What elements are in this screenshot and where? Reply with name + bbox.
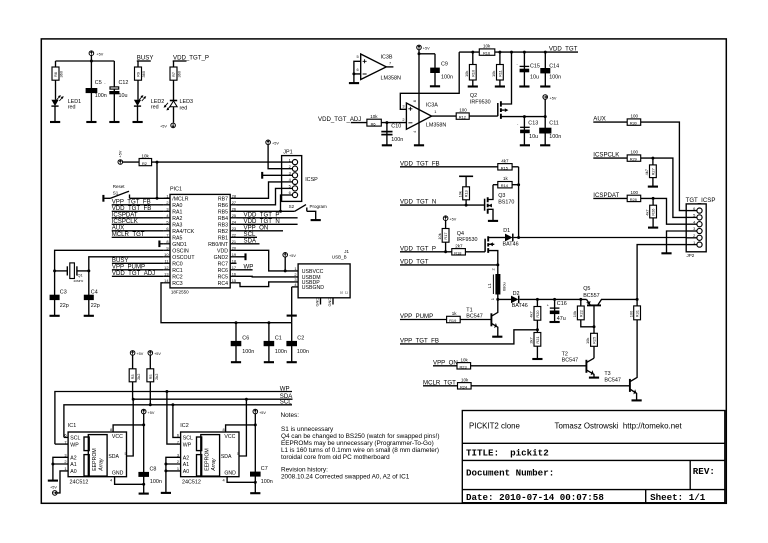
svg-text:100n: 100n [297, 349, 309, 355]
wire USBGND to ground [292, 286, 298, 288]
svg-text:REV:: REV: [693, 466, 715, 477]
wire [641, 122, 687, 211]
svg-text:BC557: BC557 [583, 293, 599, 299]
junction [171, 403, 174, 406]
svg-text:+5V: +5V [550, 96, 557, 100]
svg-text:A2: A2 [183, 456, 189, 462]
svg-text:360: 360 [59, 70, 64, 77]
ground [519, 85, 529, 87]
svg-text:RC0: RC0 [172, 261, 182, 267]
svg-text:R3: R3 [130, 374, 135, 379]
switch S1 Reset [104, 184, 170, 198]
resistor R17 10k [437, 221, 449, 252]
resistor R21 2k7 [529, 333, 541, 359]
svg-text:+5V: +5V [136, 352, 143, 356]
node SDA at RB0 [237, 238, 260, 245]
wire OSCIN [55, 250, 164, 271]
svg-text:EEPROM: EEPROM [92, 448, 98, 470]
resistor R9 [135, 61, 147, 100]
svg-text:GND2: GND2 [214, 255, 229, 261]
wire +5V to op-amp supply [418, 50, 420, 145]
junction [523, 51, 526, 54]
wire +5V rail top-left [56, 60, 115, 62]
svg-text:RC6: RC6 [218, 268, 228, 274]
ground [520, 144, 530, 146]
svg-text:Notes:: Notes: [281, 412, 300, 419]
node VPP_TGT_FB mid [400, 330, 537, 345]
svg-text:2: 2 [402, 117, 404, 122]
svg-text:C10: C10 [391, 124, 401, 130]
chip PIC1 18F2550 [164, 187, 237, 295]
svg-text:100: 100 [631, 190, 639, 195]
ground (rotated) at S1 [102, 195, 104, 202]
resistor R30 100 [627, 114, 641, 126]
svg-text:1k: 1k [452, 311, 458, 316]
svg-text:10: 10 [340, 291, 344, 295]
svg-text:27: 27 [232, 200, 236, 205]
svg-text:D2: D2 [513, 291, 520, 297]
svg-text:+5V: +5V [154, 352, 161, 356]
resistor R24 10k [458, 377, 630, 389]
svg-text:IRF9530: IRF9530 [457, 237, 478, 243]
svg-text:10k: 10k [572, 311, 577, 317]
ground [86, 121, 96, 123]
svg-text:6: 6 [166, 226, 168, 231]
capacitor C13 10u [517, 117, 538, 145]
svg-text:10k: 10k [464, 71, 469, 77]
svg-text:BAT46: BAT46 [503, 241, 519, 247]
power +5V above R5 [148, 351, 161, 357]
resistor R20 4k7 [529, 299, 541, 332]
diode D1 BAT46 [493, 228, 519, 248]
node ICSPCLK [112, 218, 164, 225]
svg-text:S1: S1 [113, 190, 119, 195]
ground [109, 121, 119, 123]
ground [468, 85, 478, 87]
svg-text:toroidal core from old PC moth: toroidal core from old PC motherboard [281, 454, 390, 461]
ground [589, 377, 599, 379]
inductor L1 [487, 265, 507, 300]
svg-text:2: 2 [491, 268, 496, 270]
wire [143, 414, 145, 494]
svg-text:A1: A1 [70, 462, 76, 468]
capacitor C12 [104, 61, 128, 122]
junction [156, 161, 159, 164]
wire [156, 162, 158, 198]
svg-text:RC5: RC5 [218, 274, 228, 280]
node VPP_TGT_FB [112, 199, 164, 206]
wire IC1 GND [115, 477, 144, 485]
wire VDD_TGT line to JP2 pin2 [514, 237, 687, 239]
capacitor C7 [250, 466, 273, 485]
junction [593, 325, 596, 328]
svg-text:R31: R31 [635, 310, 640, 317]
wire RB7 to JP1 pin4 [237, 182, 282, 198]
ground [50, 121, 60, 123]
svg-text:2k2: 2k2 [154, 374, 159, 380]
svg-text:C2: C2 [297, 335, 304, 341]
resistor R15 4k7 [498, 158, 519, 170]
svg-text:+5V: +5V [96, 53, 103, 57]
svg-text:20MHz: 20MHz [74, 279, 84, 283]
svg-text:GND1: GND1 [172, 242, 187, 248]
svg-text:R2: R2 [142, 161, 147, 166]
resistor R18 2k7 [452, 243, 485, 255]
svg-text:R27: R27 [651, 168, 656, 175]
node BUSY [137, 54, 154, 61]
junction [53, 269, 56, 272]
svg-text:red: red [68, 105, 76, 111]
junction [651, 157, 654, 160]
resistor R10 10k [464, 52, 476, 86]
svg-text:R6: R6 [371, 121, 376, 126]
capacitor C14 100n [540, 52, 561, 86]
svg-text:BC547: BC547 [466, 313, 482, 319]
junction [149, 403, 152, 406]
switch S2 Program [289, 204, 327, 220]
junction [245, 398, 248, 401]
svg-text:R7: R7 [171, 72, 176, 77]
wire IC2 GND [227, 477, 255, 483]
svg-text:BC547: BC547 [604, 377, 620, 383]
svg-text:Q3: Q3 [498, 193, 505, 199]
svg-text:Program: Program [310, 204, 328, 209]
wire RB6 to JP1 pin5 [237, 188, 282, 204]
svg-text:24C512: 24C512 [70, 480, 89, 486]
svg-text:10k: 10k [457, 191, 462, 197]
junction [352, 72, 355, 75]
wire [518, 167, 520, 238]
svg-text:10k: 10k [370, 114, 378, 119]
svg-text:RB0/INT: RB0/INT [208, 242, 229, 248]
svg-text:C8: C8 [150, 467, 157, 473]
svg-text:100n: 100n [242, 349, 254, 355]
svg-text:+5V: +5V [272, 142, 279, 146]
svg-text:1: 1 [294, 266, 296, 271]
wire [291, 287, 293, 323]
wire MCLR to JP1 pin1 [152, 161, 282, 163]
junction [636, 298, 639, 301]
junction [652, 197, 655, 200]
svg-text:13: 13 [164, 271, 168, 276]
ground [349, 82, 359, 84]
svg-text:+5V: +5V [289, 254, 296, 258]
svg-text:IRF9530: IRF9530 [470, 100, 491, 106]
junction [267, 321, 270, 324]
svg-text:LM358N: LM358N [426, 122, 446, 128]
svg-text:C6: C6 [242, 335, 249, 341]
capacitor C6 [231, 323, 255, 362]
svg-text:R13: R13 [464, 190, 469, 197]
svg-text:21: 21 [232, 239, 236, 244]
svg-text:+5V: +5V [50, 485, 57, 489]
svg-text:10u: 10u [530, 75, 539, 81]
svg-text:8: 8 [166, 239, 168, 244]
svg-text:IC2: IC2 [180, 423, 188, 429]
svg-text:Q4 can be changed to BS250 (wa: Q4 can be changed to BS250 (watch for sw… [281, 433, 439, 440]
svg-text:C14: C14 [549, 63, 559, 69]
resistor R26 4k7 [644, 198, 656, 227]
junction [544, 115, 547, 118]
svg-text:R29: R29 [630, 157, 637, 162]
wire IC1 WP [55, 443, 68, 445]
svg-text:5: 5 [166, 219, 168, 224]
svg-text:360: 360 [177, 70, 182, 77]
svg-text:+5V: +5V [259, 411, 266, 415]
wire IC1 SCL [64, 436, 68, 438]
svg-text:RB3: RB3 [218, 222, 228, 228]
capacitor C5 [86, 61, 107, 122]
op-amp IC3A LM358N [402, 100, 446, 133]
svg-text:C11: C11 [549, 121, 559, 127]
node WP at RC6 [237, 263, 254, 270]
svg-text:A0: A0 [183, 469, 189, 475]
resistor R6 10k [367, 114, 407, 126]
svg-text:18F2550: 18F2550 [171, 290, 189, 295]
svg-text:RB6: RB6 [218, 203, 228, 209]
node AUX right [593, 116, 627, 123]
svg-text:R14: R14 [501, 183, 509, 188]
ground [50, 315, 60, 317]
junction [156, 197, 159, 200]
svg-text:10k: 10k [461, 357, 469, 362]
wire [137, 106, 139, 122]
svg-text:100n: 100n [549, 75, 561, 81]
supply bar above R13 [459, 175, 473, 177]
junction [165, 390, 168, 393]
svg-text:10k: 10k [483, 44, 491, 49]
wire WP bus [55, 392, 292, 445]
wire IC1 SDA [127, 399, 134, 456]
svg-text:C13: C13 [528, 121, 538, 127]
svg-text:R19: R19 [449, 318, 456, 323]
wire VDD_TGT rail [459, 51, 578, 53]
node VPP_ON mid [433, 359, 458, 366]
svg-text:WP: WP [183, 442, 192, 448]
svg-text:Document Number:: Document Number: [466, 467, 554, 478]
wire SCL bus [64, 405, 292, 438]
svg-text:R5: R5 [148, 374, 153, 379]
svg-text:8: 8 [110, 427, 112, 432]
wire IC2 WP [167, 392, 181, 445]
diode D2 BAT46 [511, 291, 528, 309]
ground [540, 85, 550, 87]
power +5V at JP1 pin2 [266, 140, 280, 146]
svg-text:USBGND: USBGND [302, 285, 324, 291]
svg-text:4k7: 4k7 [644, 209, 649, 215]
svg-text:5: 5 [125, 451, 127, 456]
node VPP_ON at RB2 [237, 225, 284, 232]
junction [142, 483, 145, 486]
svg-text:17: 17 [232, 265, 236, 270]
junction [523, 115, 526, 118]
svg-text:S2: S2 [289, 204, 295, 209]
connector J1 USB_B [294, 249, 350, 306]
wire IC3B inputs [354, 61, 361, 83]
svg-text:2k7: 2k7 [529, 337, 534, 343]
svg-text:R22: R22 [578, 310, 583, 317]
wire JP2 pin3 to ground [667, 231, 687, 253]
wire [419, 53, 435, 55]
node BUSY at RC0 [112, 257, 164, 264]
svg-text:RC7: RC7 [218, 261, 228, 267]
svg-text:SDA: SDA [108, 454, 119, 460]
wire SDA bus [133, 398, 292, 400]
svg-text:VCC: VCC [112, 434, 123, 440]
svg-text:R18: R18 [454, 250, 461, 255]
LED LED2 [134, 96, 164, 111]
svg-text:L1 is 160 turns of 0.1mm wire: L1 is 160 turns of 0.1mm wire on small (… [281, 447, 439, 454]
svg-text:+5V: +5V [423, 47, 430, 51]
svg-text:BS170: BS170 [498, 200, 514, 206]
ground (rotated) at JP1 pin3 [262, 172, 281, 179]
junction [579, 298, 582, 301]
svg-text:R28: R28 [630, 197, 637, 202]
ground [648, 227, 658, 229]
svg-text:3: 3 [166, 206, 168, 211]
svg-text:IC1: IC1 [68, 423, 76, 429]
junction [544, 51, 547, 54]
wire RC3 to caps rail [161, 283, 292, 323]
svg-text:R26: R26 [651, 209, 656, 216]
svg-text:100n: 100n [95, 93, 107, 99]
power +5V at USB [283, 253, 296, 259]
svg-text:Sheet: 1/1: Sheet: 1/1 [650, 492, 706, 503]
svg-text:R20: R20 [535, 310, 540, 318]
svg-text:A2: A2 [70, 456, 76, 462]
svg-text:red: red [151, 105, 159, 111]
wire [254, 414, 256, 493]
wire IC1 A2 A1 to ground [53, 457, 68, 480]
power +5V at IC1 A0 [50, 485, 57, 495]
svg-text:VDD_TGT: VDD_TGT [549, 46, 578, 53]
power +5V above R3 [130, 351, 143, 357]
junction [498, 51, 501, 54]
svg-text:4k7: 4k7 [501, 158, 509, 163]
svg-text:SDA: SDA [221, 454, 232, 460]
svg-text:A1: A1 [183, 462, 189, 468]
resistor R19 1k [447, 311, 492, 323]
svg-text:12: 12 [164, 265, 168, 270]
junction [385, 121, 388, 124]
junction [418, 52, 421, 55]
wire [173, 107, 175, 123]
svg-text:8: 8 [223, 427, 225, 432]
svg-text:Q5: Q5 [583, 286, 590, 292]
junction [51, 463, 54, 466]
svg-text:19: 19 [232, 252, 236, 257]
svg-text:RA1: RA1 [172, 209, 182, 215]
power +5V at IC2 VCC [253, 409, 266, 415]
chip IC1 24C512 [64, 423, 126, 486]
svg-text:7: 7 [389, 61, 391, 66]
node VDD_TGT_P [173, 54, 209, 61]
svg-text:GND: GND [315, 298, 320, 307]
svg-text:100n: 100n [150, 479, 162, 485]
svg-text:10u: 10u [119, 93, 128, 99]
ground [495, 85, 505, 87]
svg-text:11: 11 [164, 258, 168, 263]
power +5V at Q2 output [543, 95, 557, 101]
wire [54, 106, 56, 122]
junction [510, 51, 513, 54]
junction [254, 481, 257, 484]
svg-text:VDD: VDD [217, 248, 228, 254]
svg-text:5: 5 [357, 54, 359, 59]
svg-text:22p: 22p [60, 303, 69, 309]
resistor R23 10k [457, 357, 586, 369]
svg-text:PICKIT2 clone: PICKIT2 clone [469, 422, 520, 431]
svg-text:2008.10.24 Corrected swapped A: 2008.10.24 Corrected swapped A0, A2 of I… [281, 474, 410, 481]
svg-text:RA4/TCK: RA4/TCK [172, 229, 194, 235]
wire VPP rail [498, 298, 587, 300]
svg-text:RB4: RB4 [218, 216, 228, 222]
node VDD_TGT_ADJ [318, 116, 367, 123]
junction [496, 263, 499, 266]
svg-text:28: 28 [232, 193, 236, 198]
wire IC2 SCL [173, 405, 181, 438]
resistor R8 [52, 61, 64, 100]
wire [641, 198, 687, 224]
ground [287, 315, 297, 317]
capacitor C9 [430, 54, 453, 86]
svg-text:JP2: JP2 [687, 253, 695, 258]
svg-text:R17: R17 [443, 232, 448, 239]
ground [287, 361, 297, 363]
notes text [281, 412, 440, 481]
svg-text:GND: GND [112, 470, 124, 476]
svg-text:R24: R24 [460, 384, 468, 389]
svg-text:8: 8 [412, 100, 417, 102]
resistor R14 1k [493, 176, 519, 188]
svg-text:360: 360 [141, 70, 146, 77]
svg-text:BUSY: BUSY [137, 54, 154, 61]
power +5V at R2 [118, 150, 123, 164]
svg-text:Q2: Q2 [470, 93, 477, 99]
junction [164, 469, 167, 472]
ground [532, 358, 542, 360]
svg-text:RB1: RB1 [218, 235, 228, 241]
node ICSPDAT right [593, 192, 627, 199]
svg-text:SCL: SCL [70, 436, 80, 442]
svg-text:Revision history:: Revision history: [281, 467, 328, 474]
node VDD_TGT_ADJ at RC2 [112, 270, 164, 277]
node ICSPCLK right [593, 152, 627, 159]
ground [264, 361, 274, 363]
capacitor C15 10u [517, 52, 540, 86]
node VDD_TGT_N at RB3 [237, 218, 298, 225]
svg-text:100n: 100n [441, 75, 453, 81]
junction [142, 423, 145, 426]
junction [517, 236, 520, 239]
ground [492, 336, 502, 338]
node VDD_TGT_P mid [400, 245, 452, 252]
junction [517, 183, 520, 186]
wire IC1 VCC [113, 425, 144, 432]
svg-text:R10: R10 [470, 69, 475, 77]
svg-text:R23: R23 [460, 364, 467, 369]
ground [488, 220, 498, 222]
svg-text:100: 100 [631, 114, 639, 119]
svg-text:R25: R25 [592, 337, 597, 344]
svg-text:EEPROM: EEPROM [205, 448, 211, 470]
LED LED3 [164, 99, 193, 112]
transistor Q5 BC557 [583, 286, 637, 333]
svg-text:7: 7 [166, 232, 168, 237]
resistor R31 100 [628, 299, 640, 319]
title block text [466, 422, 715, 503]
junction [284, 269, 287, 272]
